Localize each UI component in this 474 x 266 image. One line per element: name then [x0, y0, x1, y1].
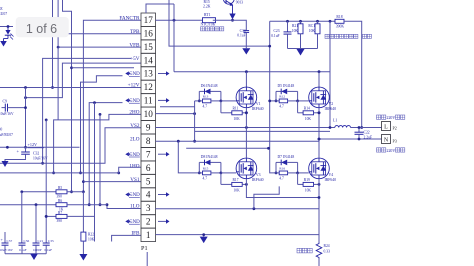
- wire V2 drain: [318, 72, 320, 87]
- ground port GND left: [125, 219, 129, 223]
- svg-text:0.1uF: 0.1uF: [271, 34, 279, 38]
- svg-text:R15: R15: [203, 167, 209, 171]
- diode D7: [276, 161, 281, 163]
- svg-text:390K: 390K: [336, 24, 345, 28]
- wire FANCTR net: [83, 20, 141, 192]
- capacitor C23: [287, 21, 289, 29]
- svg-text:+: +: [17, 149, 20, 154]
- svg-text:RT1: RT1: [204, 13, 211, 17]
- svg-text:1LO: 1LO: [130, 204, 140, 210]
- svg-text:1CE: 1CE: [0, 7, 3, 11]
- wire divider ground rail: [288, 48, 318, 50]
- LED D30: [7, 27, 9, 31]
- resistor R11: [220, 101, 222, 113]
- svg-text:10K: 10K: [305, 117, 312, 121]
- wire N rail: [319, 138, 382, 140]
- wire capacitor ground rail: [5, 253, 46, 255]
- wire 1HO left: [0, 167, 141, 173]
- wire vertical x100: [99, 114, 101, 204]
- resistor R22: [82, 192, 84, 232]
- ground port arrow right: [158, 73, 166, 75]
- wire gate node right: [297, 162, 299, 173]
- wire V2 source to V4 drain: [318, 108, 320, 158]
- svg-text:R17: R17: [233, 178, 239, 182]
- wire V1 source to V3 drain: [245, 108, 247, 158]
- wire label line A: [43, 58, 131, 163]
- wire GND11 stub: [89, 103, 122, 205]
- svg-text:0.1uF: 0.1uF: [237, 33, 245, 37]
- resistor RC1: [317, 21, 319, 24]
- wire shunt ground rail: [156, 234, 320, 236]
- ground under R22: [79, 254, 87, 261]
- svg-text:IRF640: IRF640: [252, 178, 264, 182]
- wire x330 vertical: [329, 21, 331, 127]
- svg-text:10uF/16V: 10uF/16V: [33, 157, 48, 161]
- resistor R21: [300, 21, 302, 24]
- resistor R17: [220, 173, 222, 185]
- wire pin11 mid link: [160, 106, 195, 108]
- svg-text:V2: V2: [329, 102, 334, 106]
- svg-text:10K: 10K: [292, 29, 299, 33]
- svg-text:IFB: IFB: [131, 231, 140, 237]
- mosfet V1: [236, 87, 257, 108]
- wire gate node right: [297, 91, 299, 101]
- svg-text:10uF/RU07: 10uF/RU07: [0, 133, 13, 137]
- resistor R16: [276, 172, 279, 174]
- svg-text:R14: R14: [304, 106, 310, 110]
- resistor R24 shunt: [316, 243, 322, 259]
- svg-text:R6: R6: [58, 199, 62, 203]
- svg-text:4.7: 4.7: [203, 105, 208, 109]
- ground port GND left: [125, 71, 129, 75]
- svg-text:8: 8: [146, 136, 151, 146]
- wire below shunt: [318, 259, 320, 266]
- svg-text:R24: R24: [324, 244, 330, 248]
- wire RT1 to C34: [213, 20, 247, 30]
- wire V3 source: [246, 179, 319, 198]
- svg-text:11: 11: [144, 96, 153, 106]
- mosfet V2: [309, 87, 330, 108]
- wire 2LO to V3 gate: [178, 141, 199, 173]
- svg-text:D8 IN4148: D8 IN4148: [201, 155, 218, 159]
- wire gate to mosfet: [298, 172, 309, 174]
- wire C34 down: [245, 32, 247, 48]
- svg-text:9013: 9013: [236, 0, 243, 4]
- svg-text:390: 390: [57, 195, 63, 199]
- capacitor C21: [33, 242, 40, 244]
- wire gate node right: [220, 91, 222, 101]
- wire connector top: [146, 4, 174, 13]
- wire gate node left: [198, 162, 200, 173]
- svg-text:C30: C30: [0, 128, 2, 132]
- svg-text:0.1uF: 0.1uF: [19, 248, 27, 252]
- resistor R13: [199, 100, 202, 102]
- ground port GND left: [125, 98, 129, 102]
- capacitor C35: [43, 242, 50, 244]
- svg-text:10K: 10K: [305, 188, 312, 192]
- ground under C32: [2, 161, 9, 167]
- svg-text:VFB: VFB: [129, 42, 140, 48]
- wire gate to mosfet: [298, 100, 309, 102]
- wire top sense rail: [270, 20, 335, 22]
- power arrow down Q1: [229, 14, 235, 20]
- svg-text:D6 IN4148: D6 IN4148: [201, 84, 218, 88]
- svg-text:2LO: 2LO: [130, 136, 140, 142]
- ground port GND left: [125, 152, 129, 156]
- wire VS2 left: [0, 128, 141, 164]
- resistor R15: [199, 172, 202, 174]
- svg-text:D7 IN4148: D7 IN4148: [278, 155, 295, 159]
- wire vertical x46: [45, 120, 47, 216]
- wire gate node right: [220, 162, 222, 173]
- capacitor C34: [244, 30, 250, 32]
- diode D5: [276, 90, 281, 92]
- resistor R12: [276, 100, 279, 102]
- wire VFB net: [58, 46, 141, 48]
- thermistor RT1: [203, 18, 216, 23]
- svg-text:+12V: +12V: [128, 83, 140, 89]
- resistor R7: [46, 215, 56, 217]
- wire VS1 left: [83, 181, 141, 183]
- svg-text:1HO: 1HO: [129, 163, 139, 169]
- svg-text:5: 5: [146, 176, 151, 186]
- svg-text:10K: 10K: [309, 29, 316, 33]
- wire mid rail: [156, 208, 320, 210]
- svg-text:10K: 10K: [234, 117, 241, 121]
- page badge 1 of 6: [16, 17, 69, 37]
- svg-text:10uF/16V: 10uF/16V: [0, 248, 13, 252]
- wire C32 to ground: [5, 159, 26, 161]
- svg-text:NTC/10K: NTC/10K: [201, 23, 216, 27]
- svg-text:V4: V4: [329, 173, 334, 177]
- ground port arrow right: [158, 99, 166, 101]
- svg-text:1 of 6: 1 of 6: [26, 22, 57, 36]
- wire DC drain rail: [174, 71, 330, 73]
- capacitor C37: [2, 242, 9, 244]
- wire R7 right drop: [94, 103, 96, 242]
- svg-text:C9: C9: [3, 100, 8, 104]
- svg-text:13: 13: [144, 69, 154, 79]
- wire VS2 L line: [156, 127, 335, 129]
- wire TPB net: [53, 34, 142, 88]
- svg-text:10: 10: [144, 109, 154, 119]
- svg-text:C37: C37: [7, 239, 13, 243]
- wire gate node left: [275, 91, 277, 101]
- svg-text:D5 IN4148: D5 IN4148: [278, 84, 295, 88]
- wire rail mid131: [195, 130, 331, 132]
- diode D8: [199, 161, 204, 163]
- svg-text:VS2: VS2: [130, 123, 140, 129]
- wire gate node left: [275, 162, 277, 173]
- svg-text:VS1: VS1: [130, 177, 140, 183]
- svg-text:R19: R19: [304, 178, 310, 182]
- wire VFB right: [169, 0, 270, 46]
- svg-text:2.2K: 2.2K: [203, 5, 211, 9]
- svg-text:IRF640: IRF640: [325, 178, 337, 182]
- wire 1LO left: [107, 205, 141, 209]
- wire V1 drain: [245, 72, 247, 87]
- svg-text:R11: R11: [233, 106, 239, 110]
- mosfet V3: [236, 158, 257, 179]
- svg-text:4.7: 4.7: [279, 105, 284, 109]
- wire vertical x174: [173, 4, 175, 72]
- svg-text:220V: 220V: [387, 116, 396, 120]
- ground shunt: [203, 235, 205, 237]
- svg-text:R7: R7: [58, 211, 62, 215]
- wire V4 source: [318, 179, 320, 243]
- svg-text:4.7: 4.7: [279, 177, 284, 181]
- svg-text:N: N: [384, 138, 389, 144]
- svg-text:9: 9: [146, 123, 151, 133]
- svg-text:R5: R5: [58, 186, 62, 190]
- wire 1LO branch: [254, 186, 279, 208]
- svg-text:+: +: [1, 237, 4, 242]
- svg-text:C23: C23: [274, 29, 280, 33]
- svg-text:10K: 10K: [234, 188, 241, 192]
- svg-text:2: 2: [146, 217, 151, 227]
- wire right cells feed: [270, 21, 276, 173]
- wire rail mid148: [186, 147, 268, 149]
- wire gate node left: [198, 91, 200, 101]
- ground under caps: [30, 254, 38, 260]
- text constantan wire: [297, 248, 302, 253]
- wire pin17 right: [156, 19, 203, 21]
- wire 2HO left rail: [54, 114, 141, 172]
- wire RC1 top: [317, 21, 319, 24]
- svg-text:P3: P3: [393, 139, 397, 144]
- text sine output adjust: [325, 34, 329, 38]
- ground under LED: [0, 41, 7, 47]
- wire C36 feed: [21, 192, 23, 243]
- svg-text:R15: R15: [204, 0, 210, 4]
- svg-text:2.2uF: 2.2uF: [364, 135, 373, 139]
- svg-text:2HO: 2HO: [129, 110, 139, 116]
- svg-text:3: 3: [146, 203, 151, 213]
- wire gate to mosfet: [221, 100, 236, 102]
- svg-text:FANCTR: FANCTR: [119, 15, 140, 21]
- wire +12V drop: [25, 88, 27, 148]
- svg-text:4: 4: [146, 190, 151, 200]
- svg-text:16: 16: [144, 28, 154, 38]
- text sine 220V output bottom: [377, 148, 381, 152]
- svg-text:L1: L1: [333, 119, 337, 123]
- svg-text:IRF640: IRF640: [325, 107, 337, 111]
- resistor R18: [335, 19, 344, 23]
- svg-text:10K: 10K: [88, 238, 95, 242]
- ground under divider: [297, 49, 305, 56]
- svg-text:V3: V3: [256, 173, 261, 177]
- svg-text:17: 17: [144, 15, 154, 25]
- svg-text:IRF640: IRF640: [252, 107, 264, 111]
- svg-text:0.1uF: 0.1uF: [45, 248, 53, 252]
- svg-text:+5V: +5V: [130, 56, 140, 62]
- wire C21 feed: [35, 205, 37, 243]
- diode D6: [199, 90, 204, 92]
- capacitor C9: [2, 107, 6, 109]
- svg-text:C35: C35: [48, 239, 54, 243]
- connector P3 N: [382, 135, 391, 144]
- svg-text:6: 6: [146, 163, 151, 173]
- wire GND13 stub: [81, 76, 123, 173]
- svg-text:R21: R21: [292, 24, 298, 28]
- svg-text:R22: R22: [88, 233, 94, 237]
- ground port arrow right: [158, 194, 166, 196]
- mosfet V4: [309, 158, 330, 179]
- ground port arrow right: [158, 220, 166, 222]
- svg-text:TPB: TPB: [130, 29, 140, 35]
- svg-text:1000P: 1000P: [33, 248, 42, 252]
- svg-text:C32: C32: [33, 152, 39, 156]
- svg-text:C22: C22: [364, 131, 370, 135]
- resistor R14: [297, 101, 299, 113]
- resistor R5: [21, 191, 56, 193]
- wire 2HO to V1 gate: [156, 113, 195, 115]
- svg-text:R18: R18: [336, 15, 342, 19]
- wire L3 line: [72, 67, 135, 69]
- connector P2 L: [382, 122, 391, 131]
- wire vertical x58: [57, 0, 59, 120]
- svg-text:RC1: RC1: [308, 24, 315, 28]
- capacitor C32: [25, 147, 27, 152]
- svg-text:7: 7: [146, 149, 151, 159]
- wire gate to mosfet: [221, 172, 236, 174]
- svg-text:P1: P1: [141, 245, 148, 252]
- svg-text:R12: R12: [279, 95, 285, 99]
- wire +12V rail: [0, 87, 141, 89]
- ground under C34: [242, 48, 250, 54]
- wire +5V net: [26, 63, 142, 98]
- wire vertical x52: [52, 0, 54, 34]
- svg-text:+12V: +12V: [28, 142, 38, 147]
- wire top-left net to LED: [0, 26, 13, 28]
- svg-text:12: 12: [144, 82, 154, 92]
- wire x71 branch: [63, 0, 72, 192]
- svg-text:L: L: [384, 125, 388, 131]
- transistor Q1: [223, 0, 234, 4]
- wire R18 to right vertical: [344, 21, 362, 127]
- svg-text:FRU07: FRU07: [0, 12, 7, 16]
- wire 2LO rail: [156, 140, 320, 142]
- wire x194 vertical: [194, 101, 196, 141]
- connector P1: [141, 13, 156, 26]
- capacitor C22: [358, 128, 360, 133]
- svg-text:4.7: 4.7: [203, 177, 208, 181]
- svg-text:15: 15: [144, 42, 154, 52]
- wire +12V lower rail: [0, 146, 80, 148]
- wire C35 feed: [45, 216, 47, 243]
- capacitor C36: [19, 242, 26, 244]
- svg-text:390: 390: [57, 219, 63, 223]
- svg-text:C36: C36: [24, 239, 30, 243]
- svg-text:C21: C21: [38, 239, 44, 243]
- svg-text:220V: 220V: [387, 149, 396, 153]
- svg-text:R13: R13: [203, 95, 209, 99]
- wire IFB left: [112, 235, 141, 241]
- text sine 220V output top: [377, 115, 381, 119]
- ground port GND left: [125, 192, 129, 196]
- resistor R19: [297, 173, 299, 185]
- svg-text:P2: P2: [393, 126, 397, 131]
- svg-text:1: 1: [146, 230, 151, 240]
- svg-text:V1: V1: [256, 102, 261, 106]
- svg-text:10uF/16V: 10uF/16V: [0, 112, 14, 116]
- svg-text:R16: R16: [279, 167, 285, 171]
- wire C37 feed: [4, 232, 6, 243]
- svg-text:14: 14: [144, 55, 154, 65]
- ground port arrow right: [158, 153, 166, 155]
- svg-text:0.33: 0.33: [324, 249, 331, 253]
- resistor R6: [0, 204, 56, 206]
- wire below P1: [146, 252, 148, 266]
